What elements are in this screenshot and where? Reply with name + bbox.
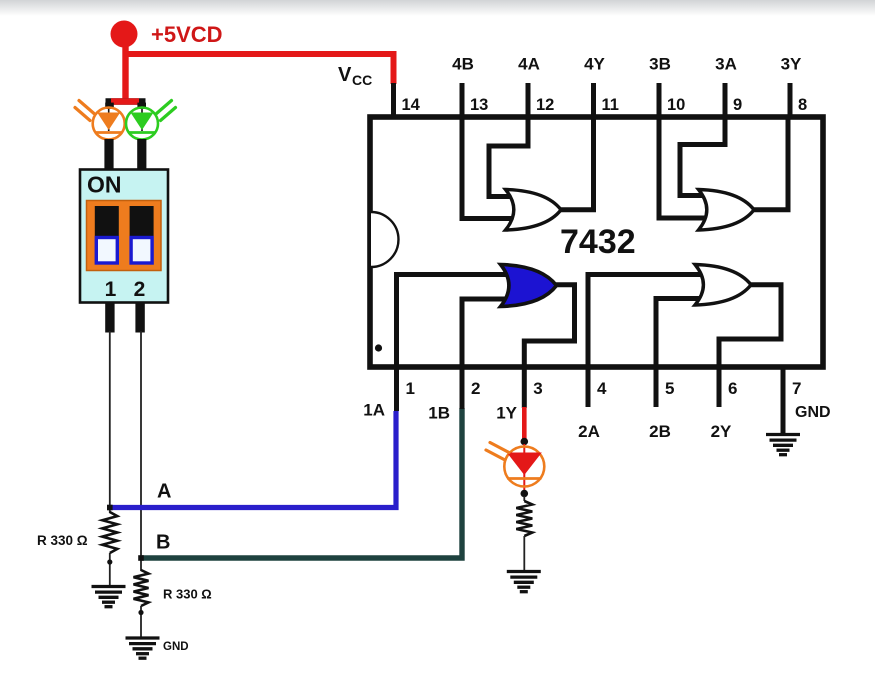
pin 7 lead (bottom) [781, 366, 786, 434]
wire pin10 to G3 [659, 116, 707, 218]
stub bar to LED D1 [105, 103, 114, 109]
pin 1 marker dot [375, 344, 382, 351]
LED D3 (red) [523, 444, 525, 492]
wire pin13 to G4 [462, 116, 514, 219]
wire pin12 to G4 [489, 116, 528, 197]
IC notch [371, 212, 398, 267]
pin 6 lead (bottom) [717, 366, 722, 407]
svg-text:2A: 2A [578, 422, 600, 441]
dot R1 lead [107, 559, 112, 564]
svg-text:1: 1 [406, 379, 415, 398]
dot below LED D3 [521, 490, 529, 498]
svg-text:ON: ON [87, 172, 122, 198]
wire G4 out to pin11 [558, 116, 594, 210]
svg-text:2Y: 2Y [711, 422, 732, 441]
OR gate G3 [699, 190, 755, 231]
wire pin5 to G2 [656, 299, 703, 368]
pin 11 lead (top) [591, 83, 596, 117]
junction dot B [138, 555, 144, 561]
svg-text:B: B [156, 532, 170, 554]
power node +5VCD [111, 21, 138, 48]
svg-text:CC: CC [352, 72, 372, 88]
DIP slider 2 [130, 206, 154, 236]
DIP switch S1 body [80, 170, 168, 303]
svg-text:5: 5 [665, 379, 674, 398]
wire G1 out to pin3 [524, 285, 574, 367]
wire G3 out to pin8 [751, 116, 788, 210]
svg-text:1: 1 [105, 278, 117, 301]
wire LED D1 to switch 1 [104, 139, 113, 170]
svg-text:3Y: 3Y [781, 55, 802, 74]
ground under R3 [507, 570, 541, 573]
svg-text:12: 12 [536, 96, 554, 114]
LED D1 (orange) [108, 109, 110, 131]
OR gate G2 [695, 265, 751, 306]
svg-text:A: A [157, 481, 171, 503]
wire pin2 to G1 [462, 299, 509, 367]
dot R2 lead [138, 610, 143, 615]
ground at pin 7 [766, 433, 800, 436]
svg-text:3B: 3B [649, 55, 671, 74]
pin 12 lead (top) [526, 83, 531, 117]
LED supply bar [106, 98, 146, 104]
svg-text:7432: 7432 [560, 223, 636, 261]
svg-text:1A: 1A [363, 401, 385, 420]
OR gate G1 (active, blue) [501, 265, 557, 307]
svg-text:GND: GND [795, 404, 831, 421]
junction dot A [107, 505, 113, 511]
dot above LED D3 [521, 438, 529, 446]
svg-text:1Y: 1Y [496, 404, 517, 423]
svg-text:R 330 Ω: R 330 Ω [163, 587, 212, 602]
svg-text:2: 2 [471, 379, 480, 398]
pin 8 lead (top) [788, 83, 793, 117]
svg-text:14: 14 [402, 96, 421, 114]
resistor R1 330 [102, 512, 117, 553]
svg-text:7: 7 [792, 379, 801, 398]
DIP slider 1 [95, 206, 119, 236]
svg-text:11: 11 [602, 96, 619, 114]
svg-text:GND: GND [163, 641, 189, 653]
wire LED D2 to switch 2 [137, 139, 146, 170]
wire G2 out to pin6 [719, 285, 781, 367]
wire A (blue) [110, 411, 396, 508]
pin 2 lead (bottom) [460, 366, 465, 409]
svg-text:1B: 1B [428, 404, 450, 423]
pin 4 lead (bottom) [586, 366, 591, 407]
svg-text:+5VCD: +5VCD [151, 22, 223, 47]
svg-text:13: 13 [470, 96, 488, 114]
svg-text:2B: 2B [649, 422, 671, 441]
pin 5 lead (bottom) [654, 366, 659, 407]
svg-text:10: 10 [667, 96, 685, 114]
pin 1 lead (bottom) [394, 366, 399, 411]
svg-text:R 330 Ω: R 330 Ω [37, 533, 88, 548]
OR gate G4 [506, 190, 562, 231]
IC U1 7432 body [370, 117, 823, 367]
wire switch 2 down [140, 331, 142, 571]
wire +5V rail to Vcc [123, 54, 394, 84]
pin 3 lead (bottom) [522, 366, 527, 408]
svg-text:V: V [338, 64, 352, 86]
resistor R3 [523, 496, 525, 501]
pin stub switch 2 [135, 303, 144, 333]
wire +5V node drop [122, 44, 128, 102]
wire pin1 to G1 [397, 275, 510, 368]
svg-text:4: 4 [597, 379, 607, 398]
pin stub switch 1 [105, 303, 114, 333]
svg-text:3: 3 [533, 379, 542, 398]
svg-text:8: 8 [798, 96, 807, 114]
ground under R2 [126, 636, 160, 639]
pin 13 lead (top) [460, 83, 465, 117]
resistor R2 330 [134, 570, 149, 606]
svg-text:4Y: 4Y [584, 55, 605, 74]
wire B (teal) [141, 408, 462, 558]
svg-text:4A: 4A [518, 55, 540, 74]
stub bar to LED D2 [137, 103, 146, 109]
svg-text:9: 9 [733, 96, 742, 114]
DIP switch orange frame [87, 201, 162, 271]
pin 14 lead (top) [391, 83, 396, 117]
svg-text:4B: 4B [452, 55, 474, 74]
wire pin4 to G2 [588, 275, 703, 368]
pin 9 lead (top) [723, 83, 728, 117]
LED D2 (green) [141, 109, 143, 131]
svg-text:2: 2 [134, 278, 146, 301]
wire pin9 to G3 [680, 116, 725, 196]
ground under R1 [92, 585, 126, 588]
pin 10 lead (top) [657, 83, 662, 117]
wire switch 1 down [109, 331, 111, 513]
svg-text:6: 6 [728, 379, 737, 398]
svg-text:3A: 3A [715, 55, 737, 74]
wire 1Y to LED D3 (red) [522, 407, 527, 441]
